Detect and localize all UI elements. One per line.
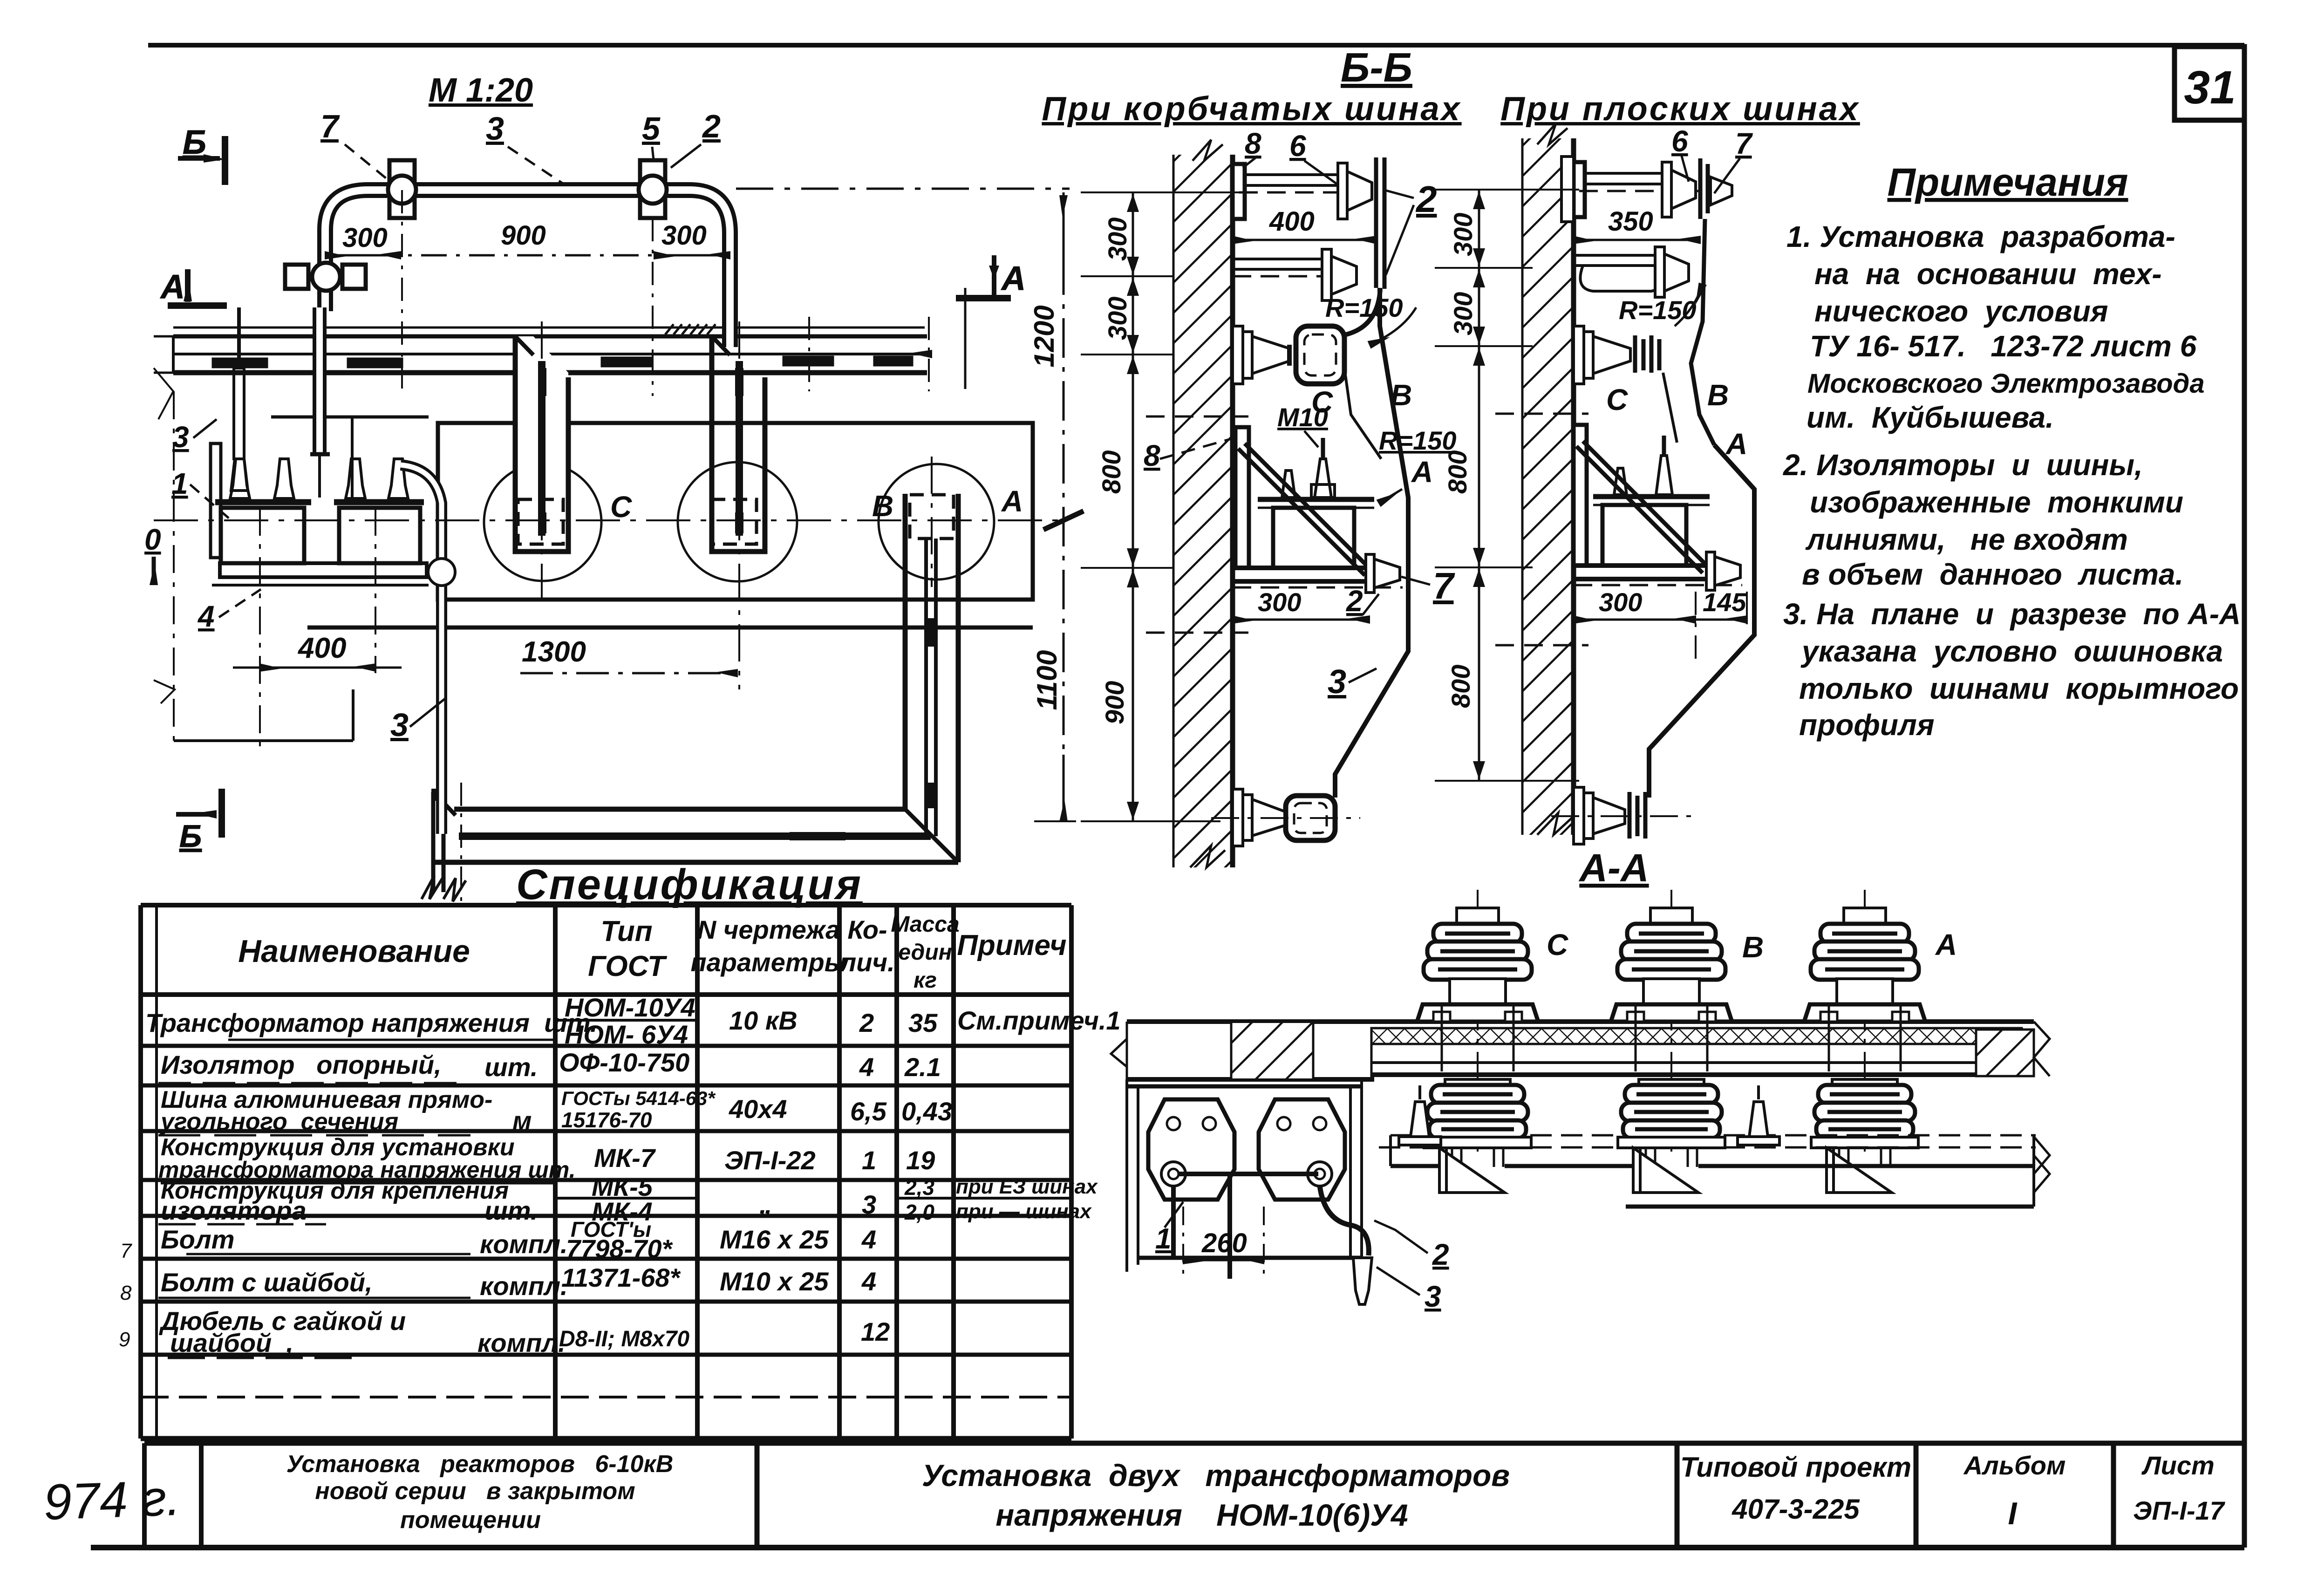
hook at right [1320,1186,1369,1255]
bottom plate [220,563,427,577]
svg-text:31: 31 [2184,61,2236,114]
svg-text:шайбой ,: шайбой , [170,1328,293,1357]
dim chain (300,300,800,900) [1081,192,1239,821]
svg-text:7798-70*: 7798-70* [566,1234,673,1263]
faint handwritten row numbers [119,1240,132,1351]
bottom channel (horizontal) [422,783,958,908]
title: sheet [2133,1451,2226,1525]
tall rod at left [234,368,244,459]
svg-text:4: 4 [197,600,215,633]
svg-text:1300: 1300 [522,636,586,668]
svg-text:1. Установка разработа-: 1. Установка разработа- [1786,220,2175,253]
svg-text:300: 300 [1258,587,1301,617]
lower insulator C [1424,1079,1531,1193]
section mark Б (bottom) [176,789,222,854]
dim 260 [1183,1207,1264,1279]
left transformers assembly [211,307,455,834]
svg-text:8: 8 [1144,439,1160,472]
vertical flat bus [1376,157,1384,289]
svg-text:5: 5 [642,110,661,147]
svg-text:Примеч: Примеч [957,929,1066,962]
svg-text:См.примеч.1: См.примеч.1 [957,1006,1121,1035]
svg-text:2: 2 [702,108,721,144]
svg-text:300: 300 [1448,292,1478,335]
svg-text:300: 300 [1103,297,1132,340]
svg-text:компл.: компл. [477,1328,566,1357]
svg-text:400: 400 [1269,206,1315,237]
channel C (П-shape from beam down) [515,336,568,552]
svg-text:N чертежа: N чертежа [697,915,840,944]
svg-text:2. Изоляторы и шины,: 2. Изоляторы и шины, [1783,448,2143,482]
callout 3 bottom [390,699,445,743]
title: project name column [286,1451,674,1534]
svg-text:Лист: Лист [2141,1451,2215,1480]
svg-text:при ЕЗ шинах: при ЕЗ шинах [956,1175,1098,1198]
svg-text:300: 300 [1103,218,1132,261]
big mounting plate [438,423,1041,636]
svg-text:Б: Б [179,818,202,854]
svg-text:С: С [610,490,632,524]
underscores on name rows [158,1040,554,1358]
svg-text:15176-70: 15176-70 [561,1108,652,1132]
hex plate 2 [1259,1099,1345,1200]
МК-7 bracket detail [1127,1079,1372,1304]
svg-text:Примечания: Примечания [1887,160,2128,204]
lower insulator A [1811,1079,1918,1193]
svg-text:при — шинах: при — шинах [956,1200,1092,1223]
svg-text:2,3: 2,3 [904,1175,934,1200]
svg-text:м: м [512,1106,532,1135]
svg-text:ЭП-I-22: ЭП-I-22 [724,1146,816,1175]
svg-text:новой серии в закрытом: новой серии в закрытом [315,1478,635,1505]
svg-text:Московского Электрозавода: Московского Электрозавода [1807,368,2205,399]
svg-text:11371-68*: 11371-68* [561,1263,681,1292]
anchor bolt cone [1315,459,1331,498]
svg-text:им. Куйбышева.: им. Куйбышева. [1807,401,2054,434]
svg-text:40х4: 40х4 [729,1094,787,1124]
dim 400 [233,508,402,755]
callout 7 [320,108,396,186]
svg-text:Установка реакторов 6-10кВ: Установка реакторов 6-10кВ [286,1451,674,1478]
body [1273,508,1354,568]
svg-text:4: 4 [861,1225,876,1254]
svg-text:7: 7 [320,108,340,144]
svg-text:2: 2 [1432,1238,1449,1271]
wall insulator middle with disc stack [1574,326,1659,384]
svg-text:М10 х 25: М10 х 25 [720,1267,829,1296]
svg-text:D8-II; М8х70: D8-II; М8х70 [559,1327,689,1351]
transformer on bracket [1235,427,1374,575]
svg-text:12: 12 [861,1317,890,1346]
svg-text:I: I [2008,1496,2018,1531]
dims 300 and 145 [1574,619,1696,621]
crosshatched plate strip [1371,1028,2022,1079]
svg-text:3. На плане и разрезе по А: 3. На плане и разрезе по А-А [1783,597,2241,631]
svg-text:0,43: 0,43 [901,1097,952,1126]
svg-text:9: 9 [119,1328,130,1351]
centerline through bottom bus [1211,817,1360,819]
svg-text:R=150: R=150 [1325,293,1403,322]
lower insulator B [1618,1079,1725,1193]
svg-text:А: А [1411,455,1433,489]
svg-text:1: 1 [1155,1223,1171,1255]
svg-text:800: 800 [1446,665,1475,708]
svg-text:параметры: параметры [690,948,846,977]
anchor hatch at bus/beam junction [665,324,716,334]
svg-text:изображенные тонкими: изображенные тонкими [1810,485,2183,519]
insulator stack B (above) [1611,890,1732,1160]
right hatched block + break [1976,1022,2050,1174]
wall [1522,123,1574,835]
svg-text:3: 3 [390,707,409,743]
transformer box 2 [339,508,420,563]
svg-text:А-А: А-А [1578,846,1649,890]
svg-text:800: 800 [1443,450,1472,494]
top bars [215,499,311,505]
svg-text:3: 3 [1328,663,1346,701]
svg-text:Ко-: Ко- [847,915,887,944]
bolt on bus right [639,160,667,218]
left boundary lines of plan area [154,336,353,741]
channel B [711,336,765,552]
svg-text:800: 800 [1097,450,1126,494]
lower rails [1379,1135,2050,1207]
svg-text:Масса: Масса [891,912,959,937]
top bracket (level 1) [1233,163,1372,219]
transformer assembly [1574,425,1710,573]
svg-text:3: 3 [172,420,189,454]
bus curve to trough bus, R=150 [1346,289,1380,334]
svg-text:260: 260 [1201,1228,1247,1258]
svg-text:помещении: помещении [400,1507,541,1534]
svg-text:2,0: 2,0 [904,1200,934,1224]
callout 3 top [486,110,564,184]
hex plate 1 [1148,1099,1234,1200]
bottom trough bus [1233,789,1335,846]
ceiling beam left part [1111,1022,2034,1079]
U-shaped bus (double line) [325,190,730,347]
svg-text:974 г.: 974 г. [43,1469,182,1530]
svg-text:При плоских шинах: При плоских шинах [1500,90,1860,128]
cones (insulator bushings) [230,459,250,498]
svg-text:шт.: шт. [484,1052,538,1082]
svg-text:изолятора: изолятора [161,1196,307,1225]
svg-text:напряжения НОМ-10(6)У4: напряжения НОМ-10(6)У4 [995,1498,1408,1532]
phase circles [484,462,994,581]
dim 300 under shelf [1233,619,1370,621]
svg-text:1100: 1100 [1031,650,1063,710]
svg-text:407-3-225: 407-3-225 [1732,1494,1860,1525]
svg-text:35: 35 [908,1008,938,1037]
svg-text:8: 8 [120,1282,132,1304]
bottom flat bus [1574,787,1645,844]
section mark А (right) [956,255,1026,298]
svg-text:3: 3 [862,1190,876,1219]
dim 400 [1233,239,1376,241]
svg-text:0: 0 [144,523,161,556]
svg-text:2: 2 [859,1008,874,1037]
ceiling beam double lines [173,288,965,391]
svg-text:300: 300 [342,223,388,253]
svg-text:В: В [872,489,893,523]
dim 1300 [520,672,737,675]
flat bus curving down [1691,219,1714,445]
svg-text:А: А [1725,427,1747,461]
svg-text:2.1: 2.1 [904,1052,941,1082]
svg-text:ЭП-I-17: ЭП-I-17 [2133,1496,2226,1525]
svg-text:В: В [1742,930,1764,964]
svg-text:един: един [898,940,952,965]
svg-text:Изолятор опорный,: Изолятор опорный, [161,1050,442,1079]
svg-text:2: 2 [1346,584,1363,618]
dim chain 300,300,800,800 [1435,190,1579,781]
bolt centerlines crossing the beam [808,317,810,391]
big outline [1335,288,1408,798]
svg-text:НОМ-10У4: НОМ-10У4 [565,993,695,1022]
svg-text:6: 6 [1289,129,1306,163]
svg-text:М16 х 25: М16 х 25 [720,1225,829,1254]
top bracket [1561,157,1732,222]
svg-text:Болт с шайбой,: Болт с шайбой, [161,1268,373,1297]
table header text [238,912,1066,993]
section mark Б (top-left) [178,124,225,185]
svg-text:НОМ- 6У4: НОМ- 6У4 [565,1020,688,1049]
small splits [555,1019,697,1022]
svg-text:А: А [1001,484,1023,518]
insulator stack A (above) [1804,890,1925,1160]
svg-text:в объем данного листа.: в объем данного листа. [1802,558,2183,591]
svg-text:Установка двух трансформато: Установка двух трансформаторов [922,1458,1510,1493]
svg-text:900: 900 [1100,681,1129,724]
svg-text:Спецификация: Спецификация [516,861,863,908]
callout labels left [144,419,261,633]
svg-text:3: 3 [486,110,504,147]
right dim chain 1200/1100 [736,189,1084,821]
cone clamp between C and B [1399,1085,1441,1145]
transformer box 1 [221,508,304,563]
big outline [1649,445,1754,798]
svg-text:ГОСТ: ГОСТ [588,950,668,982]
bottom shelf [1574,552,1742,590]
svg-text:на на основании тех-: на на основании тех- [1814,257,2162,291]
svg-text:указана условно ошиновка: указана условно ошиновка [1800,634,2223,668]
svg-text:А: А [160,268,185,306]
bottom shelf [1233,554,1403,593]
svg-text:А: А [1001,260,1026,297]
left end break [431,792,436,892]
bracket level 2 [1233,249,1357,300]
svg-text:Типовой проект: Типовой проект [1680,1452,1911,1483]
svg-text:7: 7 [1735,127,1753,160]
title: album [1963,1451,2066,1531]
svg-text:угольного сечения: угольного сечения [159,1108,398,1135]
svg-text:6,5: 6,5 [850,1097,887,1126]
svg-text:При корбчатых шинах: При корбчатых шинах [1042,90,1461,128]
svg-text:Трансформатор напряжения шт.: Трансформатор напряжения шт. [145,1008,597,1037]
insulator stack C (above) [1417,890,1538,1160]
dim 300-900-300 [325,190,730,396]
bolt on bus left [388,160,416,218]
svg-text:Наименование: Наименование [238,934,470,969]
side bolt on left vertical bus [285,263,366,291]
svg-text:1: 1 [862,1146,876,1175]
small hanging cone bottom middle [1353,1258,1372,1304]
svg-text:400: 400 [297,632,346,664]
bus drop from U into assembly (hollow double line) [313,307,327,454]
svg-text:В: В [1707,378,1729,412]
wall support [1235,427,1249,568]
svg-text:лич.: лич. [839,948,894,977]
horizontal pin between plates [1179,1172,1318,1176]
svg-text:МК-7: МК-7 [594,1143,656,1173]
svg-text:ОФ-10-750: ОФ-10-750 [559,1048,689,1077]
svg-text:1200: 1200 [1029,305,1060,367]
svg-text:Тип: Тип [600,915,652,948]
centerline horizontal [154,519,1067,521]
svg-text:4: 4 [861,1267,876,1296]
wall insulator at trough level [1233,326,1289,384]
svg-text:145: 145 [1703,587,1746,617]
svg-text:нического условия: нического условия [1814,294,2108,328]
svg-text:4: 4 [859,1052,874,1082]
svg-text:шт.: шт. [484,1196,538,1225]
dim 350 [1574,239,1700,241]
svg-text:6: 6 [1671,124,1688,158]
svg-text:10 кВ: 10 кВ [729,1006,798,1035]
svg-text:900: 900 [501,220,546,251]
section mark А (left) [160,268,227,306]
svg-text:300: 300 [661,220,707,251]
svg-text:А: А [1935,928,1957,962]
lower edge line of plate [307,626,1033,630]
trough bus (middle) [1296,326,1344,384]
svg-text:3: 3 [1425,1280,1441,1313]
svg-text:С: С [1547,928,1568,962]
svg-text:ТУ 16- 517. 123-72 лист 6: ТУ 16- 517. 123-72 лист 6 [1810,329,2197,363]
svg-text:М10: М10 [1277,402,1328,432]
svg-text:7: 7 [120,1240,132,1262]
svg-text:19: 19 [906,1146,935,1175]
title: typical project number [1680,1452,1911,1525]
title: sheet name [922,1458,1510,1532]
svg-text:350: 350 [1608,206,1653,237]
svg-text:R=150: R=150 [1619,295,1697,325]
channel A going down [905,494,958,862]
svg-text:8: 8 [1245,127,1261,160]
svg-text:М 1:20: М 1:20 [429,72,533,109]
svg-text:Альбом: Альбом [1963,1451,2066,1480]
black bus dashes on the beam [212,358,268,368]
svg-text:линиями, не входят: линиями, не входят [1805,523,2128,556]
callout 2 [671,108,721,168]
curved jumper to the right [401,465,442,834]
svg-text:300: 300 [1599,587,1642,617]
left side plate [211,443,221,558]
svg-text:компл.: компл. [480,1271,568,1301]
svg-text:7: 7 [1433,565,1455,607]
svg-text:ГОСТы 5414-63*: ГОСТы 5414-63* [561,1087,716,1109]
wall (hatched) [1173,140,1233,867]
svg-text:Болт: Болт [161,1225,234,1254]
dashed lines across wall [1146,416,1248,418]
svg-text:2: 2 [1415,178,1437,220]
svg-text:„: „ [759,1190,772,1219]
thin bus line down from trough [1344,368,1381,459]
centerlines vertical [541,321,543,601]
svg-text:только шинами корытного: только шинами корытного [1799,672,2239,705]
svg-text:Б-Б: Б-Б [1341,44,1412,90]
svg-text:профиля: профиля [1799,708,1935,742]
hanging rods [1171,1186,1176,1258]
top plate [1258,497,1374,502]
cone clamp between B and A [1738,1085,1779,1145]
table body text [145,993,1121,1357]
bracket level 2 [1574,247,1689,297]
svg-text:компл.: компл. [480,1229,568,1259]
diagonal brace [1238,449,1365,575]
callout 5 [642,110,661,182]
bracket plate behind [271,416,429,419]
svg-text:300: 300 [1448,213,1478,256]
sheet number box 31 [2175,47,2244,120]
svg-text:Б: Б [183,124,206,161]
svg-text:С: С [1606,383,1628,416]
svg-text:кг: кг [913,968,937,993]
